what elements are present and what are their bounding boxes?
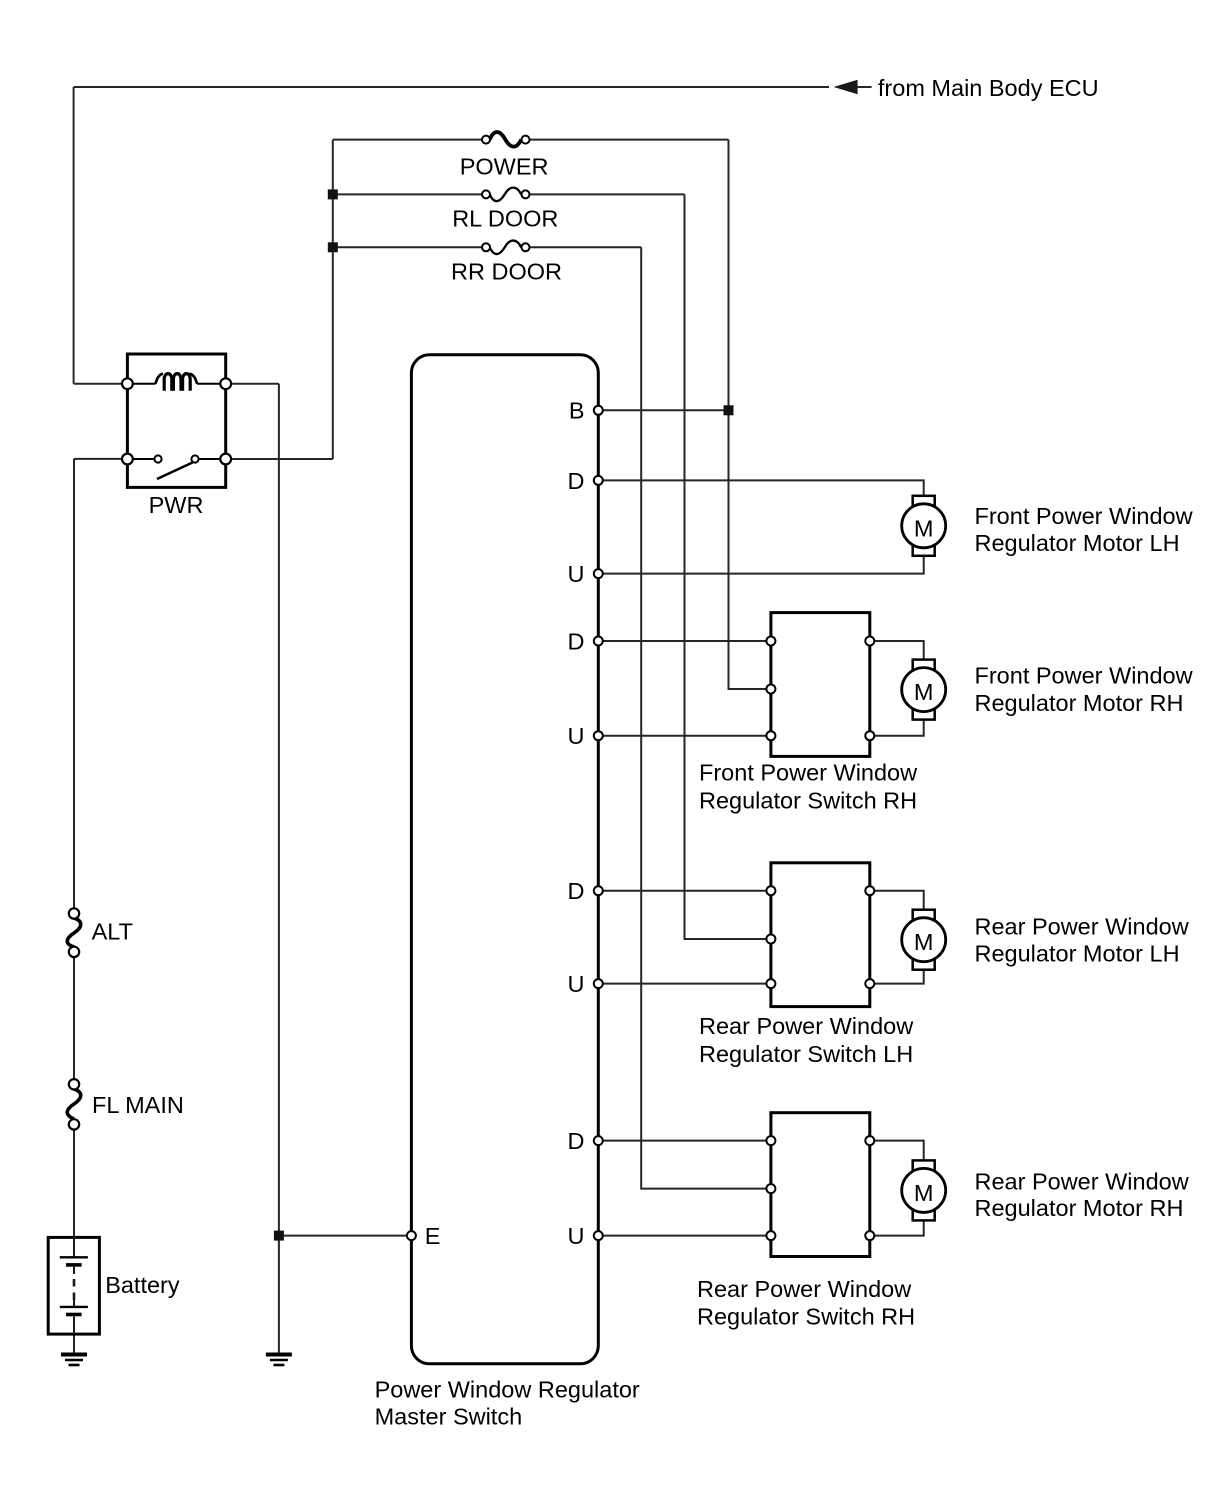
wire Front RH switch to motor top: [870, 641, 924, 661]
master switch terminal U (rear LH): [594, 979, 603, 988]
wire left vertical to ALT: [73, 459, 75, 908]
relay PWR box: [127, 354, 225, 487]
svg-text:Regulator Switch RH: Regulator Switch RH: [699, 788, 917, 814]
relay terminal bottom-right: [220, 454, 231, 465]
master switch terminal B: [594, 406, 603, 415]
wire fuse bus vertical: [332, 140, 334, 459]
Rear RH switch box: [771, 1113, 870, 1257]
svg-text:Regulator Motor RH: Regulator Motor RH: [975, 1195, 1184, 1221]
svg-text:Front Power Window: Front Power Window: [699, 760, 918, 786]
ground at battery: [61, 1355, 87, 1366]
relay terminal top-left: [122, 378, 133, 389]
ground at relay/E line: [266, 1355, 292, 1366]
relay terminal top-right: [220, 378, 231, 389]
wire POWER bus vertical to Front RH switch: [729, 140, 771, 689]
motor Rear RH: [902, 1160, 946, 1220]
Front RH switch box: [771, 613, 870, 757]
wire RR DOOR fuse row: [333, 246, 641, 248]
wire U from Front LH motor bottom: [598, 555, 923, 574]
svg-text:RL DOOR: RL DOOR: [452, 206, 558, 232]
svg-text:RR DOOR: RR DOOR: [451, 259, 562, 285]
svg-text:Battery: Battery: [105, 1272, 180, 1298]
svg-text:D: D: [568, 628, 585, 654]
wire relay coil right to vertical: [226, 383, 279, 385]
master switch terminal U (rear RH): [594, 1231, 603, 1240]
wire Rear LH switch to motor top: [870, 891, 924, 911]
svg-text:D: D: [568, 1128, 585, 1154]
wire FL MAIN to battery: [73, 1130, 75, 1238]
motor Front RH: [902, 660, 946, 720]
svg-text:Rear Power Window: Rear Power Window: [975, 914, 1190, 940]
svg-text:from Main Body ECU: from Main Body ECU: [878, 75, 1099, 101]
svg-text:Regulator Motor RH: Regulator Motor RH: [975, 690, 1184, 716]
svg-text:PWR: PWR: [149, 492, 204, 518]
wire Rear RH switch to motor top: [870, 1141, 924, 1162]
svg-text:Rear Power Window: Rear Power Window: [697, 1276, 912, 1302]
master switch terminal U (front RH): [594, 731, 603, 740]
wire D to Front LH motor top: [598, 480, 923, 497]
fusible link ALT: [67, 908, 81, 957]
master switch terminal D (rear LH): [594, 886, 603, 895]
wire relay switch right lead: [226, 458, 333, 460]
wire RL DOOR fuse row: [333, 193, 685, 195]
Rear RH switch terminals: [766, 1136, 775, 1145]
svg-text:U: U: [568, 971, 585, 997]
svg-text:D: D: [568, 468, 585, 494]
master switch terminal D (rear RH): [594, 1136, 603, 1145]
wire RR bus vertical to Rear RH switch: [641, 247, 771, 1188]
wire D to Front RH switch: [598, 640, 771, 642]
wire POWER fuse row: [333, 139, 729, 141]
wire U to Rear LH switch: [598, 983, 771, 985]
master switch Power Window Regulator Master Switch box: [411, 355, 598, 1364]
wire coil-right vertical down to ground: [278, 384, 280, 1354]
master switch terminal U (front LH): [594, 569, 603, 578]
svg-text:Regulator Switch RH: Regulator Switch RH: [697, 1303, 915, 1329]
fuse RL DOOR: [482, 188, 530, 202]
wire ALT to FL MAIN: [73, 957, 75, 1079]
svg-text:Regulator Switch LH: Regulator Switch LH: [699, 1041, 913, 1067]
svg-text:ALT: ALT: [92, 918, 133, 944]
Front RH switch terminals: [766, 637, 775, 646]
wire RL bus vertical to Rear LH switch: [685, 194, 771, 939]
svg-text:M: M: [914, 929, 934, 955]
svg-text:U: U: [568, 561, 585, 587]
Rear LH switch terminals: [766, 886, 775, 895]
relay PWR coil: [132, 374, 221, 391]
junction E wire to ground line: [274, 1231, 284, 1241]
junction B to POWER bus: [724, 405, 734, 415]
fusible link FL MAIN: [67, 1079, 81, 1130]
svg-text:D: D: [568, 878, 585, 904]
wire left vertical upper: [73, 87, 75, 384]
wire from Main Body ECU horizontal: [74, 86, 829, 88]
svg-text:E: E: [425, 1223, 441, 1249]
motor Front LH: [902, 496, 946, 556]
battery: [48, 1237, 99, 1334]
arrowhead from Main Body ECU: [834, 80, 858, 95]
svg-text:Rear Power Window: Rear Power Window: [699, 1013, 914, 1039]
wire battery to ground: [73, 1334, 75, 1353]
svg-text:Regulator Motor LH: Regulator Motor LH: [975, 941, 1180, 967]
svg-text:FL MAIN: FL MAIN: [92, 1092, 184, 1118]
svg-text:M: M: [914, 1180, 934, 1206]
fuse RR DOOR: [482, 241, 530, 254]
svg-text:B: B: [569, 398, 585, 424]
wire E terminal to ground line: [279, 1235, 412, 1237]
Rear LH switch box: [771, 863, 870, 1007]
svg-text:M: M: [914, 679, 934, 705]
svg-text:Rear Power Window: Rear Power Window: [975, 1168, 1190, 1194]
fuse POWER: [482, 132, 530, 147]
svg-text:Power Window Regulator: Power Window Regulator: [375, 1377, 640, 1403]
wire U to Front RH switch: [598, 735, 771, 737]
wire Rear LH switch to motor bottom: [870, 968, 924, 983]
relay terminal bottom-left: [122, 454, 133, 465]
svg-text:M: M: [914, 515, 934, 541]
wire D to Rear RH switch: [598, 1140, 771, 1142]
wire B terminal to POWER bus: [598, 409, 728, 411]
svg-text:Front Power Window: Front Power Window: [975, 662, 1194, 688]
master switch terminal D (front LH): [594, 476, 603, 485]
wire D to Rear LH switch: [598, 890, 771, 892]
junction RL DOOR tap: [328, 189, 338, 199]
svg-text:U: U: [568, 723, 585, 749]
wire Front RH switch to motor bottom: [870, 718, 924, 735]
svg-text:Master Switch: Master Switch: [375, 1404, 523, 1430]
svg-text:POWER: POWER: [460, 154, 549, 180]
wire relay switch left lead: [74, 458, 128, 460]
relay PWR switch contact: [132, 455, 221, 479]
wire ECU arrow stub: [858, 86, 872, 88]
svg-text:Regulator Motor LH: Regulator Motor LH: [975, 530, 1180, 556]
svg-text:U: U: [568, 1223, 585, 1249]
wire U to Rear RH switch: [598, 1235, 771, 1237]
master switch terminal E: [407, 1231, 416, 1240]
wire relay coil left lead: [74, 383, 128, 385]
svg-text:Front Power Window: Front Power Window: [975, 503, 1194, 529]
wire Rear RH switch to motor bottom: [870, 1219, 924, 1236]
motor Rear LH: [902, 910, 946, 970]
junction RR DOOR tap: [328, 242, 338, 252]
master switch terminal D (front RH): [594, 637, 603, 646]
